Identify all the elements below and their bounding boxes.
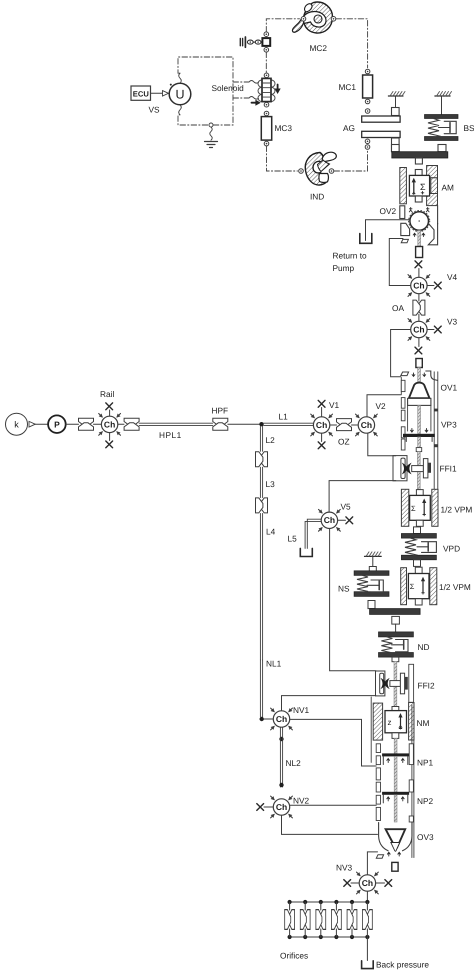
OV3 arrows	[387, 852, 400, 856]
X port right of V4	[434, 282, 441, 289]
svg-text:Rail: Rail	[100, 389, 114, 399]
junction dot	[259, 422, 263, 426]
rod link block	[416, 448, 422, 452]
VPM2 left guide	[401, 568, 407, 605]
X port right of NV3	[385, 880, 392, 887]
orifice rail top	[289, 901, 368, 903]
AG lower ports	[365, 139, 370, 149]
node bottom port	[264, 48, 269, 53]
VP3 left sleeves	[401, 398, 405, 450]
svg-text:VPD: VPD	[443, 544, 460, 554]
link AG right to bar	[392, 145, 400, 152]
wire V2 to OV1 port	[367, 395, 401, 417]
valve OV3 cone	[386, 829, 406, 851]
AM right guide	[427, 166, 438, 206]
chamber V3	[407, 317, 432, 342]
OV2 seat right funnel	[428, 223, 437, 245]
X port left of NV3	[344, 880, 351, 887]
squiggle U top	[179, 73, 182, 83]
stub OZ to V2	[352, 424, 359, 426]
VPD lower link	[414, 560, 421, 567]
body right wall	[434, 372, 438, 490]
svg-text:1/2 VPM: 1/2 VPM	[439, 582, 471, 592]
body left casing line	[370, 697, 372, 762]
pipe NL2	[280, 727, 282, 787]
solenoid down arrow	[275, 85, 281, 95]
svg-text:Σ: Σ	[411, 504, 416, 513]
orifice O5	[347, 910, 357, 930]
svg-text:MC1: MC1	[339, 82, 357, 92]
svg-text:MC3: MC3	[275, 123, 293, 133]
NP1 rod	[394, 756, 397, 792]
tank return bucket	[360, 234, 372, 244]
stub V1 to OZ	[330, 424, 337, 426]
bar lower link	[392, 616, 400, 624]
pipe HPL1	[139, 423, 213, 425]
VPM1 right guide	[432, 489, 438, 526]
junction node circle	[209, 123, 213, 127]
OV2 seat left	[401, 223, 410, 235]
wire to Rail	[94, 423, 102, 425]
orifice L2-L3	[256, 452, 268, 467]
wire dot to NV1	[264, 718, 273, 720]
svg-text:Back pressure: Back pressure	[376, 960, 429, 970]
orifice L3-L4	[256, 498, 268, 513]
stub V3 bottom	[418, 338, 420, 347]
OV3 seat left	[379, 823, 389, 851]
wire NV3 to rail	[366, 891, 368, 902]
needle top bar	[370, 609, 421, 615]
wall damper anchor	[240, 37, 261, 47]
orifice O2	[300, 910, 310, 930]
crank IND	[299, 152, 337, 185]
pipe L1	[264, 423, 314, 425]
orifice O3	[316, 910, 326, 930]
wire Rail to restrictor	[118, 423, 124, 425]
junction dot NL2 top	[279, 737, 283, 741]
svg-text:ECU: ECU	[133, 90, 150, 99]
svg-text:Orifices: Orifices	[280, 951, 308, 961]
svg-text:VP3: VP3	[441, 420, 457, 430]
svg-text:HPF: HPF	[212, 406, 229, 416]
svg-text:OV1: OV1	[441, 383, 458, 393]
stub NV2 left	[264, 806, 273, 808]
mass half VPM2	[408, 567, 429, 605]
X port above V4	[415, 261, 422, 268]
AG right lower link	[392, 138, 400, 152]
OV1 flag left	[401, 372, 409, 376]
stub V1 bottom	[321, 433, 323, 441]
armature top bar	[392, 152, 448, 158]
svg-text:L2: L2	[266, 435, 276, 445]
tank back pressure bucket	[362, 961, 374, 969]
svg-text:NV3: NV3	[336, 863, 353, 873]
svg-text:OA: OA	[392, 303, 404, 313]
OV1 right bracket	[426, 371, 438, 380]
svg-text:IND: IND	[310, 192, 324, 202]
svg-text:NP1: NP1	[417, 758, 434, 768]
OV2 stem	[418, 231, 421, 247]
arrow k to P	[29, 421, 48, 427]
svg-text:NV2: NV2	[293, 796, 310, 806]
wire V3 to OV1	[391, 330, 411, 377]
spring-damper ND	[379, 632, 414, 657]
VPM2 right guide	[430, 568, 437, 605]
orifice O6	[362, 910, 372, 930]
svg-text:OV2: OV2	[380, 206, 397, 216]
wall anchor NS	[365, 552, 382, 571]
NM right guide	[409, 703, 414, 741]
piston NP2 crown	[382, 792, 409, 803]
chamber Rail	[97, 412, 122, 437]
orifice O4	[331, 910, 341, 930]
crank MC2	[292, 2, 335, 33]
AM left guide	[400, 168, 407, 204]
X port right of V5	[346, 517, 353, 524]
mass half VPM1	[410, 490, 431, 527]
junction square node	[262, 38, 270, 46]
svg-text:FFI1: FFI1	[440, 464, 457, 474]
needle left sleeves	[376, 744, 380, 821]
contact AG lower plate	[362, 131, 400, 137]
orifice OA	[413, 300, 425, 315]
NM left guide	[373, 703, 382, 740]
piston NP1 crown	[382, 753, 409, 764]
piston VP3 crown	[403, 434, 435, 442]
dash-dot control box	[178, 57, 233, 125]
svg-text:NV1: NV1	[293, 705, 310, 715]
FFI1 anchor box	[393, 456, 407, 481]
svg-text:OV3: OV3	[417, 832, 434, 842]
wire NV1 to NP1	[290, 719, 376, 766]
OV1 left sleeve	[401, 380, 405, 391]
orifice bank stubs	[290, 902, 368, 937]
X port right of V3	[434, 326, 441, 333]
solenoid bottom port	[264, 102, 269, 107]
pipe OV2 to tank	[366, 220, 410, 241]
valve OV1 cone	[408, 383, 431, 406]
orifice O1	[285, 910, 295, 930]
chamber V1	[309, 413, 334, 438]
stub Rail bottom	[109, 433, 111, 441]
dash-dot node to MC2 line	[266, 19, 299, 32]
voltage source U1 circle	[169, 83, 191, 105]
wire box to solenoid top	[233, 81, 259, 84]
svg-text:L5: L5	[288, 534, 298, 544]
solenoid top port	[264, 73, 269, 78]
X port above Rail	[106, 403, 113, 410]
OV3 seat right	[403, 823, 413, 851]
svg-text:V3: V3	[447, 317, 458, 327]
svg-text:L4: L4	[266, 527, 276, 537]
stub V5 right	[338, 519, 346, 521]
svg-text:AG: AG	[343, 123, 355, 133]
svg-text:HPL1: HPL1	[159, 430, 182, 440]
spring-damper NS	[354, 571, 389, 597]
wire box to solenoid bottom	[233, 97, 259, 100]
svg-text:L3: L3	[266, 479, 276, 489]
label Return to Pump	[333, 251, 368, 274]
solenoid L1 coil	[258, 78, 275, 101]
spring-damper BS	[425, 115, 459, 152]
NP2 rod	[394, 795, 397, 822]
svg-text:V2: V2	[376, 401, 387, 411]
wire V5 to FFI2	[330, 529, 376, 671]
stub Rail top	[109, 410, 111, 416]
mass AM box	[409, 170, 429, 203]
NM to NP1 rod	[394, 738, 397, 753]
wire V5 to FFI1	[329, 481, 396, 512]
spring-damper VPD	[401, 527, 436, 560]
svg-text:ND: ND	[418, 642, 430, 652]
ND lower link	[392, 657, 399, 662]
OV2 stem block	[416, 247, 423, 258]
wire NV2 to OV3	[282, 815, 378, 834]
VP3 rod upper	[418, 406, 421, 434]
svg-text:1/2 VPM: 1/2 VPM	[441, 505, 473, 515]
svg-text:NS: NS	[338, 584, 350, 594]
svg-text:Solenoid: Solenoid	[212, 83, 245, 93]
stub NV3 right	[376, 882, 385, 884]
OV3 stem block	[392, 862, 398, 871]
valve OV2 ball	[409, 208, 430, 237]
wire ECU to U with arrow	[151, 91, 169, 96]
rail junction dots top	[288, 900, 370, 904]
svg-text:L1: L1	[279, 412, 289, 422]
mass MC3	[261, 111, 271, 146]
svg-text:Σ: Σ	[420, 182, 426, 192]
body right wall lower	[412, 703, 414, 858]
svg-text:NL1: NL1	[266, 659, 282, 669]
stub V4 bottom	[418, 294, 420, 301]
dash-dot MC3 to IND	[267, 146, 298, 171]
svg-text:Return to: Return to	[333, 251, 368, 261]
svg-text:V4: V4	[447, 272, 458, 282]
svg-text:U: U	[175, 88, 184, 102]
orifice rail bottom	[289, 936, 368, 938]
needle right sleeves	[409, 744, 413, 822]
wire NV1 to FFI2	[282, 696, 376, 711]
friction FFI2	[380, 661, 408, 706]
junction dot NL2 bottom	[279, 783, 283, 787]
VPM1 left guide	[401, 489, 408, 526]
wire NV2 to NP2	[290, 804, 376, 806]
orifice OZ	[337, 419, 352, 431]
svg-text:V1: V1	[329, 400, 340, 410]
friction FFI1	[401, 452, 431, 490]
chamber V5	[317, 508, 342, 533]
chamber V4	[407, 273, 432, 298]
OV1 stem block	[416, 359, 422, 368]
X port above V1	[318, 400, 325, 407]
chamber V2	[354, 413, 379, 438]
svg-text:NM: NM	[417, 718, 430, 728]
OV1 arrows	[412, 373, 426, 376]
svg-text:NP2: NP2	[417, 796, 434, 806]
OV2 seat flag	[401, 239, 408, 242]
junction dot NV1	[260, 717, 264, 721]
VP3 bore walls	[408, 406, 431, 432]
orifice rail-out	[124, 418, 139, 430]
VP3 arrows	[411, 429, 428, 433]
pressure source P	[48, 415, 66, 433]
svg-text:MC2: MC2	[310, 43, 328, 53]
chamber NV3	[355, 871, 380, 896]
wire OV2 seat to V4	[389, 239, 410, 286]
wire HPF to junction	[228, 423, 262, 425]
wall anchor BS	[435, 92, 452, 115]
NS lower link	[368, 601, 375, 609]
mass NM box	[385, 707, 407, 739]
wire OV3 to NV3	[367, 852, 377, 875]
X port below V1	[318, 442, 325, 449]
squiggle U bottom	[179, 105, 182, 115]
svg-text:V5: V5	[341, 502, 352, 512]
mass MC1	[363, 69, 373, 113]
chamber NV1	[269, 707, 294, 732]
ground squiggle	[210, 127, 212, 140]
dash-dot node to solenoid	[265, 52, 267, 73]
svg-text:BS: BS	[464, 123, 474, 133]
svg-text:k: k	[14, 420, 19, 430]
X port left of NV2	[257, 804, 264, 811]
svg-text:FFI2: FFI2	[418, 681, 435, 691]
X port below Rail	[106, 441, 113, 448]
VP3 rod lower	[418, 437, 421, 448]
stub V4 right	[427, 285, 434, 287]
pipe L3	[260, 467, 262, 497]
dash-dot IND to AG	[334, 150, 368, 172]
body right column FFI2	[409, 664, 414, 702]
orifice HPF	[213, 418, 228, 430]
pipe L2	[260, 426, 262, 451]
FFI2 anchor box	[376, 671, 385, 696]
wire P to restrictor	[66, 423, 79, 425]
wall anchor AG	[388, 92, 405, 116]
tank L5 bucket	[300, 548, 312, 556]
orifice rail-in	[79, 418, 94, 430]
rail junction dots bottom	[288, 935, 370, 939]
pipe L4	[260, 513, 262, 660]
stub V3 right	[427, 329, 434, 331]
wire V2 to FFI1	[368, 433, 396, 456]
chamber NV2	[269, 795, 294, 820]
ECU block	[131, 86, 151, 100]
OV3 flag	[376, 855, 383, 859]
solenoid right arrow	[252, 100, 261, 106]
stub V4 top	[418, 269, 420, 278]
svg-text:AM: AM	[442, 183, 455, 193]
pipe L5	[305, 519, 321, 548]
body left wall upper	[400, 378, 402, 395]
svg-text:Σ: Σ	[410, 582, 415, 591]
contact AG upper plate	[362, 116, 400, 122]
svg-text:z: z	[388, 718, 392, 727]
bar to AM link	[415, 158, 422, 164]
stub NV3 left	[351, 882, 359, 884]
svg-text:VS: VS	[149, 105, 161, 115]
pipe NL1 lower	[260, 660, 262, 717]
svg-text:NL2: NL2	[286, 758, 302, 768]
node top port	[264, 32, 269, 37]
svg-text:Pump: Pump	[333, 263, 355, 273]
stub V1 top	[321, 408, 323, 417]
svg-text:OZ: OZ	[338, 437, 350, 447]
stub OA to V3	[418, 314, 420, 321]
ground symbol	[205, 142, 218, 148]
dash-dot MC2 to MC1	[336, 19, 368, 68]
OV1 stem rod	[418, 368, 421, 382]
X port below V3	[415, 347, 422, 354]
wire rail to back pressure	[366, 937, 368, 961]
OV2 left sleeve	[400, 206, 405, 219]
svg-text:P: P	[54, 419, 60, 429]
bar link stem	[395, 624, 397, 632]
source k circle	[6, 413, 28, 435]
